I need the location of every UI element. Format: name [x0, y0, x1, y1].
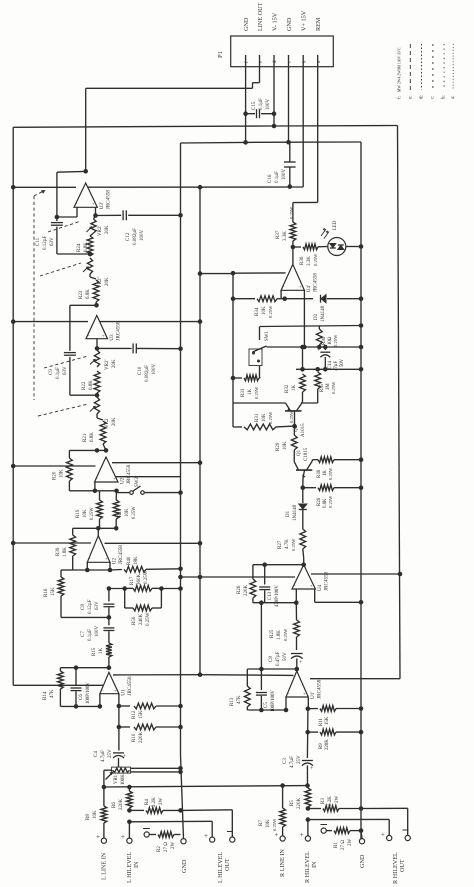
V- right bus [398, 126, 401, 679]
node R24 bottom [88, 252, 93, 257]
svg-text:18K: 18K [134, 556, 139, 565]
svg-text:2.2K: 2.2K [152, 797, 157, 807]
svg-text:220K: 220K [297, 798, 302, 810]
resistor R29 [276, 410, 297, 462]
wire LINE OUT drop [85, 88, 87, 171]
op-amp U3' [74, 183, 111, 209]
svg-text:R24: R24 [77, 243, 82, 252]
svg-text:GND: GND [359, 854, 366, 868]
wire U2 plus input rail [73, 562, 113, 572]
svg-text:240K: 240K [139, 614, 144, 626]
op-amp U3 [86, 315, 122, 340]
node R5 out [306, 817, 311, 822]
svg-text:R35: R35 [320, 383, 325, 392]
op-amp U2 [87, 536, 124, 565]
resistor R2 [143, 829, 181, 853]
svg-text:R34: R34 [255, 307, 260, 316]
svg-text:R22: R22 [82, 381, 87, 390]
wire U1 feedback top [60, 665, 109, 671]
node main col 588 [107, 586, 127, 591]
V+ branch [199, 187, 201, 674]
terminal GND L [181, 755, 189, 873]
svg-text:R14: R14 [43, 691, 48, 700]
svg-text:100P/100V: 100P/100V [271, 690, 276, 712]
svg-text:R29: R29 [276, 442, 281, 451]
svg-text:R9: R9 [319, 743, 324, 749]
svg-text:JRC4558: JRC4558 [312, 273, 318, 293]
terminal R HILEVEL IN [300, 820, 319, 883]
wire U4 feedback top [253, 562, 304, 579]
wire U1' link [259, 603, 264, 672]
svg-text:C5: C5 [264, 702, 269, 708]
svg-text:R17: R17 [130, 576, 135, 585]
svg-text:2W: 2W [348, 839, 353, 847]
svg-text:4.7K: 4.7K [285, 539, 290, 549]
svg-text:C10: C10 [138, 366, 143, 375]
svg-text:LED: LED [333, 220, 338, 230]
P1 pin b [301, 10, 308, 66]
svg-text:63V: 63V [95, 601, 100, 610]
capacitor C11 [36, 217, 63, 250]
capacitor C15 [243, 98, 276, 118]
svg-text:b:: b: [442, 95, 447, 99]
svg-text:C3: C3 [283, 758, 288, 764]
capacitor C5 [256, 669, 276, 712]
svg-text:4.7µF: 4.7µF [290, 756, 295, 768]
capacitor C6 [71, 668, 92, 709]
node U3' output [83, 169, 88, 174]
svg-text:R19: R19 [76, 509, 81, 518]
svg-text:2W: 2W [335, 796, 340, 804]
svg-text:R6: R6 [112, 802, 117, 808]
pot VR2d [90, 397, 117, 428]
connector P1 [217, 36, 333, 67]
svg-text:63V: 63V [63, 366, 68, 375]
op-amp U4' [281, 264, 318, 292]
wire U4' V+ line [198, 271, 286, 276]
svg-text:V+ 15V: V+ 15V [301, 10, 308, 31]
node U1' output [247, 667, 299, 686]
svg-text:0.25W: 0.25W [146, 612, 151, 626]
resistor R27 [278, 529, 306, 558]
svg-text:15K: 15K [325, 716, 330, 725]
svg-text:20K: 20K [112, 359, 117, 368]
op-amp U1 [100, 672, 133, 695]
svg-text:V- 15V: V- 15V [272, 12, 279, 31]
wire VR1 right [131, 766, 183, 774]
svg-text:0.25W: 0.25W [90, 507, 95, 520]
svg-text:e: e [259, 61, 264, 63]
P1 pin f [243, 17, 250, 67]
svg-text:100V: 100V [282, 169, 287, 181]
svg-text:10K: 10K [266, 819, 271, 828]
svg-text:SW2: SW2 [135, 477, 140, 488]
svg-text:L HILEVEL: L HILEVEL [126, 852, 133, 883]
svg-text:+: + [96, 833, 100, 841]
wire U3 V- [11, 319, 88, 324]
terminal R LINE IN [275, 831, 287, 877]
svg-text:+: + [381, 831, 385, 839]
resistor R20 [53, 458, 73, 481]
svg-text:f:: f: [398, 96, 403, 99]
svg-text:10K: 10K [262, 413, 267, 422]
resistor R7 [259, 786, 286, 837]
svg-text:R38: R38 [317, 469, 322, 478]
node Q1 emitter [301, 485, 306, 490]
svg-text:1.8K: 1.8K [63, 547, 68, 557]
svg-text:0.25W: 0.25W [333, 334, 338, 347]
svg-text:R8: R8 [86, 814, 91, 820]
wire R16 top [61, 570, 73, 571]
svg-text:C11: C11 [36, 237, 41, 246]
V+ rail [88, 185, 303, 190]
svg-text:20K: 20K [112, 417, 117, 426]
svg-text:R12: R12 [132, 710, 137, 719]
resistor R16 [44, 571, 111, 620]
diode D2 [285, 295, 364, 322]
svg-text:25V: 25V [297, 755, 302, 764]
svg-text:GND: GND [243, 17, 250, 31]
svg-text:25V: 25V [108, 749, 113, 758]
wire LINE OUT from pin e [86, 67, 260, 89]
svg-text:15K: 15K [51, 587, 56, 596]
svg-text:2.2K: 2.2K [328, 796, 333, 806]
svg-text:0.25W: 0.25W [272, 818, 277, 831]
svg-text:1N4148: 1N4148 [321, 305, 326, 322]
node U4 output [301, 558, 306, 567]
svg-text:-: - [76, 201, 78, 206]
svg-text:MW 2W4 2W0M 100V AVC: MW 2W4 2W0M 100V AVC [398, 47, 402, 92]
svg-text:R39: R39 [56, 547, 61, 556]
svg-text:220K: 220K [325, 739, 330, 750]
svg-text:SW1: SW1 [265, 331, 270, 342]
resistor R17 [125, 570, 183, 591]
svg-text:OUT: OUT [399, 859, 406, 872]
svg-text:R HILEVEL: R HILEVEL [304, 851, 311, 883]
svg-text:R28: R28 [317, 497, 322, 506]
svg-text:0.082µF: 0.082µF [133, 228, 138, 245]
resistor R40 [110, 556, 183, 572]
wire U2 V+ [105, 541, 203, 546]
control rail A [267, 345, 364, 350]
svg-text:+: + [102, 333, 105, 338]
wire R20 bottom [69, 481, 118, 493]
svg-text:LINE OUT: LINE OUT [257, 2, 264, 31]
svg-text:OUT: OUT [224, 858, 231, 871]
svg-text:20K: 20K [105, 277, 110, 286]
svg-text:P1: P1 [217, 51, 224, 58]
terminal L HILEVEL OUT [204, 832, 235, 884]
svg-text:0.25W: 0.25W [289, 410, 294, 423]
left GND bus [180, 143, 182, 755]
svg-text:+: + [123, 754, 127, 760]
svg-text:R2: R2 [157, 846, 162, 852]
svg-text:JRC4558: JRC4558 [126, 464, 132, 484]
svg-text:C16: C16 [268, 174, 273, 183]
wire U4 V+ [178, 575, 295, 580]
svg-text:1N4148: 1N4148 [293, 504, 298, 521]
node R6 out [127, 820, 132, 825]
wire U2' feedback top [69, 448, 106, 458]
resistor R9 [308, 729, 364, 750]
wire U1' V- [310, 678, 400, 680]
svg-text:JRC4558: JRC4558 [118, 545, 124, 565]
svg-text:0.25W: 0.25W [268, 411, 273, 424]
resistor R32 [285, 347, 305, 398]
node R37 bottom [291, 241, 296, 264]
svg-text:R7: R7 [259, 820, 264, 826]
svg-text:-: - [294, 583, 296, 588]
wire U3' plus input stub [95, 207, 97, 215]
LED [321, 220, 346, 255]
wire U1 plus input [117, 694, 122, 709]
svg-text:GND: GND [181, 859, 188, 873]
wire SW2 to GND [145, 490, 183, 495]
transistor Q1 C1815 [294, 447, 312, 488]
svg-text:0.25W: 0.25W [144, 570, 149, 584]
wire pin b V+ [302, 67, 304, 187]
svg-text:10K: 10K [93, 810, 98, 819]
svg-text:R31: R31 [255, 413, 260, 422]
svg-text:27 Ω: 27 Ω [341, 840, 346, 850]
svg-text:C14: C14 [328, 360, 333, 369]
svg-text:0.082µF: 0.082µF [145, 365, 150, 382]
svg-text:-: - [288, 691, 290, 696]
wire R input col [305, 709, 310, 735]
svg-text:1K: 1K [292, 385, 297, 392]
wire U4' minus input [280, 290, 282, 298]
svg-text:-: - [88, 333, 90, 338]
svg-text:63V: 63V [50, 237, 55, 246]
capacitor C7 [81, 617, 114, 643]
svg-text:C13: C13 [268, 591, 273, 600]
capacitor C8 [81, 589, 114, 618]
svg-text:-: - [89, 556, 91, 561]
wire U1' plus input [306, 697, 311, 711]
svg-text:JRC4558: JRC4558 [316, 679, 322, 699]
svg-text:0.1µF: 0.1µF [259, 98, 264, 110]
resistor R24 [77, 236, 93, 256]
wire pin d V- [273, 67, 275, 126]
resistor R34 [231, 296, 287, 318]
resistor R36 [293, 244, 328, 266]
capacitor C4 [94, 727, 127, 767]
resistor R11 [308, 706, 363, 726]
node U2' output [104, 448, 109, 453]
dashed wiper link VR2d [38, 404, 88, 416]
svg-text:a:: a: [451, 96, 456, 99]
svg-text:0.25W: 0.25W [289, 206, 294, 219]
svg-text:+: + [204, 832, 208, 840]
svg-text:R36: R36 [300, 256, 305, 265]
node U1 output [107, 665, 112, 670]
svg-text:D1: D1 [286, 510, 291, 517]
svg-text:R25: R25 [270, 629, 275, 638]
wire U3' feedback top [55, 171, 86, 219]
node U3 output [94, 303, 99, 308]
svg-text:10K: 10K [283, 441, 288, 450]
capacitor C8' [269, 651, 303, 669]
svg-text:R LINE IN: R LINE IN [279, 849, 286, 877]
wire U2' V+ [112, 460, 202, 465]
svg-text:IN: IN [311, 861, 318, 868]
svg-text:Q1: Q1 [297, 449, 302, 456]
svg-text:2W: 2W [159, 798, 164, 806]
wire C11 bottom [57, 227, 90, 254]
wire U3 input stub [95, 339, 100, 351]
capacitor C10 [97, 343, 183, 382]
svg-text:C9: C9 [49, 369, 54, 375]
wire pin a REM [293, 67, 318, 222]
svg-text:IN: IN [133, 861, 140, 868]
svg-text:15K: 15K [139, 710, 144, 719]
resistor R31 [233, 411, 295, 430]
wire VR1 left [104, 770, 112, 787]
svg-text:R11: R11 [319, 718, 324, 726]
svg-text:0.12µF: 0.12µF [43, 235, 48, 250]
svg-text:R HILEVEL: R HILEVEL [392, 852, 399, 884]
wire pin c [288, 67, 290, 143]
svg-text:R4: R4 [145, 799, 150, 805]
svg-text:C7: C7 [81, 631, 86, 637]
svg-text:R10: R10 [132, 733, 137, 742]
svg-text:R3: R3 [321, 798, 326, 804]
legend wire codes [398, 44, 456, 99]
resistor R6 [112, 787, 132, 810]
resistor R18 [113, 491, 137, 529]
dashed gang line [34, 190, 46, 400]
svg-text:C8: C8 [269, 656, 274, 662]
resistor R3 [308, 796, 363, 812]
node U2 output [73, 526, 119, 536]
svg-text:100V: 100V [95, 626, 100, 638]
svg-text:R37: R37 [276, 230, 281, 239]
wire U3' minus input stub [57, 207, 77, 217]
svg-text:JRC4558: JRC4558 [105, 190, 111, 210]
svg-text:50V: 50V [283, 652, 288, 661]
resistor R5 [290, 786, 311, 809]
svg-text:U3′: U3′ [99, 202, 105, 209]
svg-text:360K: 360K [137, 574, 142, 586]
node Q2 base [292, 424, 297, 429]
svg-text:0.25W: 0.25W [132, 506, 137, 519]
wire U2 V- [11, 541, 91, 546]
svg-text:VR2′: VR2′ [105, 359, 110, 370]
svg-text:C15: C15 [252, 101, 257, 110]
svg-text:-: - [283, 284, 285, 289]
capacitor C16 [268, 142, 296, 189]
node R5 R3 [306, 806, 311, 811]
svg-text:220K: 220K [119, 799, 124, 811]
wire U4 feedback bottom [253, 589, 299, 605]
svg-text:470P/100V: 470P/100V [275, 585, 280, 607]
node C3 bottom [280, 783, 310, 788]
node R22 bottom [95, 393, 100, 398]
svg-text:U4′: U4′ [306, 285, 312, 292]
dashed wiper link VR2a [48, 221, 81, 232]
wire U1' V+ and U1 V+ tee [200, 674, 294, 677]
wire U1 feedback bottom [60, 694, 102, 709]
resistor R19 [76, 491, 102, 529]
pot VR2b [83, 258, 110, 288]
capacitor C14 [317, 347, 345, 371]
svg-text:D2: D2 [314, 313, 319, 320]
svg-text:R21: R21 [83, 433, 88, 442]
P1 pin e [257, 2, 264, 66]
svg-text:c:: c: [431, 96, 436, 99]
resistor R22 [82, 371, 100, 393]
resistor R33 [231, 375, 261, 399]
svg-text:+: + [310, 766, 314, 772]
svg-text:C6: C6 [79, 694, 84, 700]
svg-text:R5: R5 [290, 800, 295, 806]
resistor R23 [79, 274, 99, 305]
wire U3 feedback top [70, 305, 97, 351]
terminal L LINE IN [96, 833, 108, 880]
dashed wiper link VR2c [44, 356, 88, 368]
pot VR2a [87, 216, 111, 237]
wire to R HILEVEL OUT minus [361, 808, 408, 835]
capacitor C13 [259, 565, 280, 607]
resistor R28 [303, 485, 364, 508]
resistor R25 [270, 603, 299, 650]
capacitor C9 [49, 351, 76, 379]
wire U3' V- [11, 185, 76, 190]
svg-text:220K: 220K [244, 585, 249, 597]
wire SW1 gnd line [260, 323, 364, 340]
svg-text:+: + [300, 831, 304, 839]
svg-text:0.25W: 0.25W [313, 253, 318, 266]
svg-text:+: + [121, 833, 125, 841]
wire SW1 box to R33 [259, 366, 262, 378]
svg-text:2W: 2W [171, 842, 176, 850]
wire U4 plus input [315, 589, 364, 605]
svg-text:GND: GND [286, 17, 293, 31]
P1 pin c [286, 17, 293, 67]
svg-text:U2: U2 [112, 558, 118, 565]
svg-text:0.25W: 0.25W [254, 386, 259, 399]
svg-text:R16: R16 [44, 588, 49, 597]
vertical x233 [232, 273, 234, 427]
P1 pin d [272, 12, 279, 66]
svg-text:R50: R50 [132, 616, 137, 625]
svg-text:0.25W: 0.25W [328, 467, 333, 480]
svg-text:L LINE IN: L LINE IN [101, 852, 108, 880]
svg-text:d:: d: [420, 95, 425, 99]
svg-text:R18: R18 [118, 508, 123, 517]
svg-text:+: + [299, 660, 303, 666]
switch SW2 [117, 477, 145, 495]
resistor R4 [129, 797, 182, 814]
svg-text:R1: R1 [334, 842, 339, 848]
svg-text:6.8K: 6.8K [84, 242, 89, 252]
wire U3 V+ [100, 319, 202, 324]
right GND bus [360, 142, 362, 839]
wire pin f GND [245, 67, 247, 143]
svg-text:27 Ω: 27 Ω [164, 842, 169, 852]
svg-text:0.25W: 0.25W [331, 381, 336, 394]
resistor R12 [119, 703, 183, 719]
svg-text:U4: U4 [317, 584, 323, 591]
svg-text:0.1µF: 0.1µF [56, 367, 61, 379]
capacitor C12 [93, 210, 183, 245]
svg-text:0.25W: 0.25W [283, 628, 288, 641]
svg-text:C1815: C1815 [304, 447, 309, 461]
resistor R39 [56, 528, 76, 570]
svg-text:A1015: A1015 [301, 423, 306, 437]
svg-text:-: - [102, 688, 104, 693]
svg-text:R15: R15 [92, 647, 97, 656]
